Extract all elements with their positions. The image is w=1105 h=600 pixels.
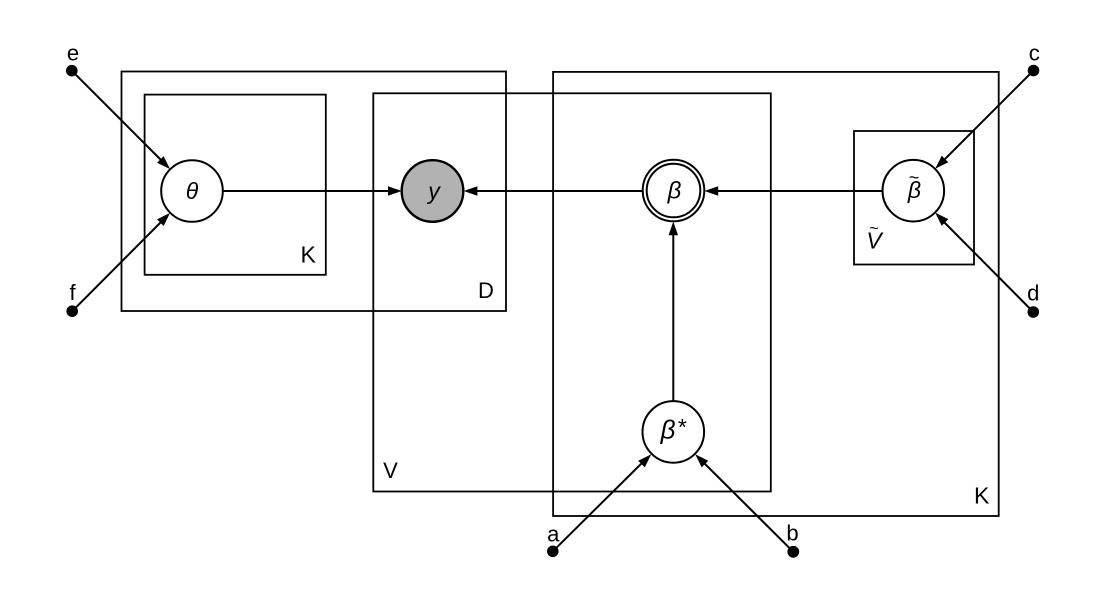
plate K (left) label K: [301, 242, 317, 268]
node theta: [161, 160, 223, 222]
wire c to beta-tilde with arrowhead: [935, 71, 1033, 169]
wire a to beta-star with arrowhead: [553, 454, 652, 551]
svg-text:e: e: [67, 41, 79, 66]
wire beta-star to beta with arrowhead: [669, 222, 678, 402]
dot c: [1028, 65, 1040, 77]
svg-text:β: β: [660, 415, 676, 445]
svg-text:θ: θ: [186, 178, 199, 204]
node beta-star: [643, 401, 705, 463]
wire b to beta-star with arrowhead: [695, 454, 793, 552]
svg-text:D: D: [478, 278, 494, 303]
plate V label V: [383, 458, 398, 483]
dot b: [787, 546, 799, 558]
wire theta to y with arrowhead: [223, 186, 402, 195]
svg-text:d: d: [1027, 281, 1039, 306]
svg-text:c: c: [1029, 41, 1040, 66]
label f: [69, 280, 76, 305]
dot d: [1028, 306, 1040, 318]
node y (observed, shaded): [402, 160, 464, 222]
svg-text:~: ~: [869, 221, 878, 238]
svg-text:*: *: [678, 414, 687, 440]
svg-text:V: V: [383, 458, 398, 483]
wire d to beta-tilde with arrowhead: [935, 213, 1033, 312]
plate V: [373, 93, 771, 491]
node beta (double circle): [643, 160, 705, 222]
wire f to theta with arrowhead: [72, 213, 170, 311]
plate K (right outer): [553, 72, 999, 516]
dot a: [547, 546, 559, 558]
plate D: [122, 72, 507, 312]
svg-text:a: a: [547, 522, 560, 547]
plate D label D: [478, 278, 494, 303]
svg-text:b: b: [786, 521, 798, 546]
svg-text:K: K: [301, 242, 317, 268]
node beta-tilde: [883, 160, 945, 222]
plate V-tilde: [854, 131, 974, 265]
svg-text:β: β: [667, 178, 682, 205]
svg-text:K: K: [974, 483, 990, 509]
plate V-tilde label: [866, 221, 884, 254]
plate K (right) label K: [974, 483, 990, 509]
dot f: [66, 305, 78, 317]
svg-text:y: y: [426, 178, 441, 204]
label a: [547, 522, 560, 547]
wire beta-tilde to beta with arrowhead: [705, 186, 883, 195]
label c: [1029, 41, 1040, 66]
svg-text:f: f: [69, 280, 76, 305]
label d: [1027, 281, 1039, 306]
dot e: [66, 65, 78, 77]
label e: [67, 41, 79, 66]
wire beta to y with arrowhead: [464, 186, 643, 195]
label b: [786, 521, 798, 546]
svg-text:~: ~: [909, 168, 920, 188]
plate K (left inner): [145, 95, 326, 275]
wire e to theta with arrowhead: [72, 71, 170, 169]
